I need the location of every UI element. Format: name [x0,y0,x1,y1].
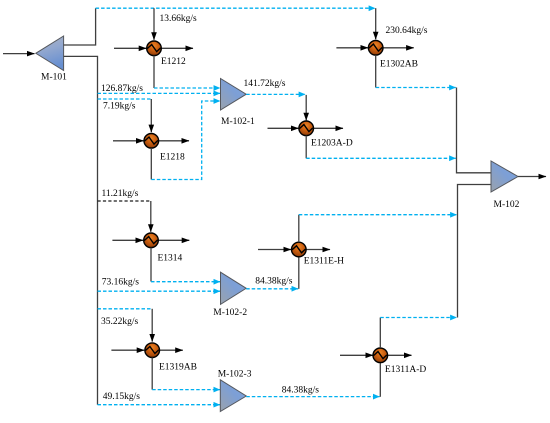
wire M-102-2 outlet dashed [246,288,298,290]
svg-text:230.64kg/s: 230.64kg/s [386,26,428,36]
wire feed into E1302AB top [375,8,377,39]
wire E1203A-D inlet [268,127,299,129]
exchanger E1218 [144,134,159,149]
svg-text:141.72kg/s: 141.72kg/s [244,79,286,89]
wire E1218 loop dashed to M-102-1 [151,101,220,180]
wire M-102 outlet [518,176,546,178]
exchanger E1203A-D [299,121,314,136]
wire E1314 outlet [157,239,190,241]
wire E1218 bottom outlet [150,148,152,179]
wire E1314 to M-102-2 dashed [151,281,220,283]
svg-text:E1314: E1314 [158,254,183,264]
svg-text:M-102: M-102 [494,200,520,210]
wire 73.16 stream dashed [98,290,221,292]
exchanger E1212 [147,41,162,56]
exchanger E1311A-D [373,348,388,363]
wire E1314 bottom outlet [150,248,152,282]
wire E1212 bottom outlet [153,56,155,88]
svg-text:M-102-3: M-102-3 [218,369,252,379]
svg-text:49.15kg/s: 49.15kg/s [103,392,141,402]
mixer M-101 [36,36,64,71]
svg-text:E1203A-D: E1203A-D [311,139,353,149]
wire M-102-3 outlet dashed [246,396,379,398]
wire E1311E-H inlet [258,249,291,251]
exchanger E1302AB [368,41,383,56]
svg-text:M-101: M-101 [41,73,67,83]
wire 7.19 branch dashed [98,98,152,100]
wire 35.22 branch dashed [98,308,153,310]
svg-text:E1319AB: E1319AB [159,363,197,373]
wire E1302AB outlet [382,47,414,49]
wire E1218 outlet [157,140,189,142]
mixer M-102 [491,161,518,192]
wire feed into E1218 top [150,99,152,132]
wire E1311A-D to right header dashed [380,317,457,319]
wire 11.21 branch black dashed [98,200,151,202]
svg-text:E1212: E1212 [161,57,186,67]
exchanger E1311E-H [292,242,307,257]
exchanger E1314 [144,233,159,248]
wire corner down into E1203A-D [305,95,307,120]
wire right lower header into M-102 [458,185,491,318]
wire E1212 outlet [160,47,193,49]
wire E1218 inlet [113,140,144,142]
svg-text:E1311E-H: E1311E-H [304,257,344,267]
wire 49.15 stream dashed [98,404,221,406]
wire feed into E1314 top [150,201,152,232]
wire M-101 feed [3,53,35,55]
svg-text:M-102-1: M-102-1 [221,117,255,127]
exchanger E1319AB [145,343,160,358]
svg-text:84.38kg/s: 84.38kg/s [255,277,293,287]
wire E1319AB inlet [111,349,144,351]
wire E1311E-H to right header dashed [299,214,457,216]
wire E1203A-D bottom outlet [305,136,307,159]
wire E1212 inlet [114,47,146,49]
wire E1302AB to right header dashed [376,87,456,89]
wire E1311A-D outlet [386,354,412,356]
wire feed into E1319AB top [151,309,153,342]
wire E1319AB outlet [158,349,183,351]
wire top header dashed to E1302AB [96,7,376,9]
svg-text:13.66kg/s: 13.66kg/s [160,14,198,24]
wire E1311E-H top outlet [298,215,300,243]
wire M-102-1 outlet dashed [246,93,305,95]
svg-text:E1311A-D: E1311A-D [385,365,426,375]
svg-text:7.19kg/s: 7.19kg/s [103,101,136,111]
mixer M-102-3 [220,380,246,412]
svg-text:E1302AB: E1302AB [380,59,418,69]
wire E1319AB to M-102-3 dashed [152,389,220,391]
wire corner up into E1311E-H bottom [298,257,300,289]
svg-text:E1218: E1218 [160,153,185,163]
wire feed into E1212 top [153,8,155,40]
wire corner up into E1311A-D bottom [379,363,381,397]
wire M-101 upper outlet to top header [64,8,96,45]
wire E1302AB bottom outlet [375,55,377,87]
svg-text:73.16kg/s: 73.16kg/s [102,277,140,287]
wire E1203A-D to right header dashed [306,157,456,159]
wire 126.87 stream dashed [98,92,221,94]
svg-text:11.21kg/s: 11.21kg/s [102,189,139,199]
wire E1319AB bottom outlet [151,358,153,390]
wire E1212 to M-102-1 dashed [154,87,220,89]
wire E1314 inlet [112,239,143,241]
wire E1203A-D outlet [312,127,343,129]
svg-text:M-102-2: M-102-2 [213,308,247,318]
wire right upper header into M-102 [457,88,491,173]
mixer M-102-2 [221,272,247,304]
mixer M-102-1 [221,79,247,111]
wire E1302AB inlet [336,47,368,49]
wire E1311E-H outlet [305,249,331,251]
wire E1311A-D top outlet [379,318,381,349]
svg-text:126.87kg/s: 126.87kg/s [101,84,143,94]
svg-text:35.22kg/s: 35.22kg/s [101,317,139,327]
wire M-101 lower outlet down the left main line [64,56,98,404]
svg-text:84.38kg/s: 84.38kg/s [282,385,320,395]
wire E1311A-D inlet [340,354,373,356]
